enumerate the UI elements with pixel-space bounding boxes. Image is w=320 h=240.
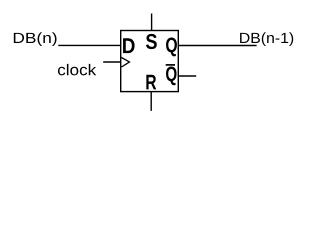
node label DB(n-1): [240, 32, 293, 46]
wire: R pin: [150, 92, 152, 111]
pin label Q-bar: [166, 65, 177, 85]
node label clock: [58, 64, 96, 75]
flip-flop U1 body: [121, 31, 179, 92]
wire: Q output to DB(n-1): [178, 45, 256, 47]
wire: clock input: [103, 61, 120, 63]
clock edge-trigger symbol: [121, 58, 129, 68]
wire: DB(n) to D input: [58, 44, 120, 46]
pin label Q: [166, 38, 177, 57]
node label DB(n): [14, 32, 57, 46]
wire: S pin: [151, 14, 153, 31]
pin label D: [123, 38, 135, 53]
pin label R: [146, 75, 156, 90]
wire: Q-bar stub: [178, 75, 196, 77]
pin label S: [146, 34, 157, 49]
